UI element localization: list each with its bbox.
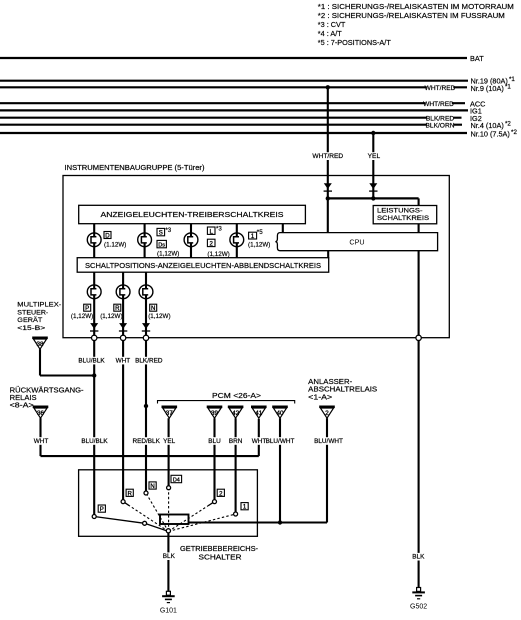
svg-text:37: 37 — [166, 410, 174, 417]
wire BAT bus — [0, 57, 467, 59]
svg-text:WHT/RED: WHT/RED — [423, 101, 454, 108]
lamp D indicator — [87, 233, 101, 247]
svg-text:*2 : SICHERUNGS-/RELAISKASTEN: *2 : SICHERUNGS-/RELAISKASTEN IM FUSSRAU… — [318, 11, 505, 20]
wire driver to lamp D indicator — [93, 224, 95, 233]
box indicator driver circuit (ANZEIGELEUCHTEN-TREIBERSCHALTKREIS) — [79, 205, 306, 223]
svg-text:N: N — [151, 305, 155, 312]
wire color label BLU — [208, 437, 221, 445]
svg-text:<8-A>: <8-A> — [10, 402, 34, 409]
harness arrow lamp R indicator — [119, 323, 127, 331]
svg-text:*5 : 7-POSITIONS-A/T: *5 : 7-POSITIONS-A/T — [318, 38, 392, 47]
svg-text:41: 41 — [255, 410, 263, 417]
wire lamp 1 indicator to dimming circuit — [236, 247, 238, 258]
wire color label BLU/BLK — [78, 357, 105, 365]
contact label D4 — [171, 475, 182, 483]
switch contact 1 — [234, 512, 238, 516]
harness arrow YEL into cluster — [369, 183, 377, 191]
wire color label WHT — [116, 357, 131, 365]
wire color label WHT/RED — [425, 84, 456, 92]
wire driver circuit to CPU — [282, 224, 284, 232]
svg-text:CPU: CPU — [349, 238, 364, 247]
wire color label BLU/WHT — [266, 437, 295, 445]
svg-text:GERÄT: GERÄT — [17, 316, 42, 324]
svg-text:R: R — [115, 305, 120, 312]
wire multiplex to BLU/BLK — [40, 374, 94, 376]
svg-text:*5: *5 — [257, 229, 263, 236]
wire IG2 bus BLK/RED — [0, 117, 462, 119]
wire fuse Nr.10 bus — [0, 132, 467, 134]
wire fuse Nr.19 bus — [0, 80, 468, 82]
contact label R — [126, 489, 133, 497]
wire lamp P indicator to connector — [93, 299, 95, 336]
wire WHT R-lamp to switch — [122, 340, 124, 502]
svg-text:42: 42 — [232, 410, 240, 417]
wire dimming circuit to lamp N indicator — [145, 272, 147, 285]
svg-text:39: 39 — [211, 410, 219, 417]
wire CPU ground drop — [418, 251, 420, 336]
svg-text:RÜCKWÄRTSGANG-: RÜCKWÄRTSGANG- — [10, 386, 85, 394]
connector 38 multiplex unit — [32, 338, 48, 349]
wire YEL PCM 37 to switch D — [168, 418, 170, 488]
dashed wiper line to R — [123, 502, 168, 532]
wire IG1 bus — [0, 109, 468, 111]
svg-text:RED/BLK: RED/BLK — [133, 438, 161, 445]
connector pin 40 PCM — [272, 407, 288, 418]
wire BLU PCM 39 to switch 2 — [213, 418, 215, 501]
connector 2 starter cutoff relay — [319, 407, 335, 418]
connector pin 39 PCM — [207, 407, 223, 418]
label box 2 — [207, 239, 215, 247]
wire lamp S/Ds indicator to dimming circuit — [144, 247, 146, 258]
junction node BLU/BLK-multiplex — [92, 373, 96, 377]
switch pivot common — [166, 529, 170, 533]
svg-text:RELAIS: RELAIS — [10, 395, 37, 402]
wire BLU/WHT to switch common — [189, 521, 328, 523]
svg-text:(1,12W): (1,12W) — [100, 313, 122, 320]
contact label 2 — [217, 489, 224, 497]
wire color label BLK/ORN — [426, 122, 455, 130]
wire color label BLK — [412, 553, 425, 561]
svg-text:BLK/ORN: BLK/ORN — [426, 122, 455, 129]
svg-text:BAT: BAT — [470, 54, 484, 63]
connector pin on cluster, lamp R indicator — [120, 335, 125, 340]
connector pin on cluster, lamp P indicator — [92, 335, 97, 340]
lamp L/2 indicator — [184, 233, 198, 247]
label box Ds — [157, 240, 166, 248]
svg-text:38: 38 — [36, 341, 44, 348]
svg-text:BLU/WHT: BLU/WHT — [314, 438, 343, 445]
svg-text:WHT: WHT — [34, 438, 49, 445]
wire BLU/BLK P-lamp to switch — [93, 340, 95, 517]
wire internal feed bar — [328, 197, 419, 199]
wire dimming circuit to lamp R indicator — [122, 272, 124, 285]
svg-text:MULTIPLEX-: MULTIPLEX- — [17, 302, 61, 309]
svg-text:R: R — [127, 490, 132, 497]
connector 36 reverse relay — [33, 407, 49, 418]
wire BLK CPU to ground — [418, 340, 420, 588]
harness arrow lamp P indicator — [90, 323, 98, 331]
svg-text:LEISTUNGS-: LEISTUNGS- — [377, 207, 423, 214]
svg-text:ABSCHALTRELAIS: ABSCHALTRELAIS — [308, 387, 377, 394]
wire WHT riser to PCM 41 — [258, 419, 260, 456]
junction node BLK/RED — [144, 404, 148, 408]
wiper roller contact — [143, 521, 147, 525]
switch wiper rectangle — [160, 515, 189, 525]
connector pin on cluster, lamp N indicator — [143, 335, 148, 340]
contact label N — [149, 482, 156, 490]
wire from connector 38 — [39, 349, 41, 375]
connector pin 42 PCM — [228, 407, 244, 418]
svg-text:Ds: Ds — [158, 243, 165, 249]
svg-text:(1,12W): (1,12W) — [248, 242, 270, 249]
svg-text:STEUER-: STEUER- — [17, 309, 48, 316]
lamp S/Ds indicator — [138, 233, 152, 247]
wire WHT relay to PCM 41 — [41, 455, 259, 457]
svg-text:<15-B>: <15-B> — [17, 325, 45, 332]
wire color label WHT — [252, 437, 267, 445]
svg-text:D: D — [105, 232, 110, 239]
svg-text:*3: *3 — [165, 227, 171, 234]
label box D — [104, 232, 111, 240]
wire power circuit to CPU — [418, 224, 420, 233]
wire color label BRN — [229, 437, 243, 445]
wire lamp N indicator to connector — [145, 299, 147, 336]
label box 1 — [249, 232, 257, 240]
svg-text:GETRIEBEBEREICHS-: GETRIEBEBEREICHS- — [180, 546, 259, 553]
wire color label YEL — [163, 437, 176, 445]
box transmission range switch (GETRIEBEBEREICHS-SCHALTER) — [79, 470, 258, 537]
svg-text:D4: D4 — [173, 478, 180, 484]
wire bar to power circuit — [418, 198, 420, 205]
wire WHT from connector 36 — [39, 418, 41, 456]
svg-text:ANLASSER-: ANLASSER- — [308, 379, 353, 386]
svg-text:2: 2 — [210, 241, 214, 248]
svg-text:*4 : A/T: *4 : A/T — [318, 29, 342, 38]
wiper stub at R — [123, 502, 129, 506]
wire color label BLK/RED — [135, 357, 163, 365]
wire fuse Nr.4 bus BLK/ORN — [0, 124, 462, 126]
switch contact P — [92, 515, 96, 519]
switch contact D — [167, 486, 171, 490]
label box P — [84, 304, 91, 312]
svg-text:BRN: BRN — [229, 438, 243, 445]
lamp R indicator — [116, 285, 130, 299]
bracket PCM connector group — [158, 401, 295, 404]
lamp 1 indicator — [230, 233, 244, 247]
wire color label WHT/RED — [423, 100, 454, 108]
wire BLU/WHT PCM 40 drop — [279, 418, 281, 522]
wire color label WHT/RED — [312, 152, 343, 160]
svg-text:ANZEIGELEUCHTEN-TREIBERSCHALTK: ANZEIGELEUCHTEN-TREIBERSCHALTKREIS — [101, 210, 284, 219]
svg-text:*3 : CVT: *3 : CVT — [318, 20, 346, 29]
svg-text:BLU/WHT: BLU/WHT — [266, 438, 295, 445]
junction node YEL-bar — [371, 196, 375, 200]
lamp N indicator — [139, 285, 153, 299]
box instrument cluster — [63, 176, 449, 338]
label box L — [207, 227, 215, 235]
wire color label RED/BLK — [133, 437, 161, 445]
ground G101 — [160, 591, 177, 614]
switch contact N — [144, 491, 148, 495]
svg-text:WHT/RED: WHT/RED — [425, 85, 456, 92]
svg-text:WHT: WHT — [252, 438, 267, 445]
wire color label BLK/RED — [426, 115, 454, 123]
wire dimming circuit to lamp P indicator — [93, 272, 95, 285]
dashed wiper line to N — [146, 493, 168, 531]
svg-text:WHT/RED: WHT/RED — [312, 153, 343, 160]
svg-text:SCHALTKREIS: SCHALTKREIS — [377, 215, 430, 222]
wire color label BLU/BLK — [81, 437, 108, 445]
svg-text:L: L — [210, 228, 214, 235]
label box R — [114, 304, 121, 312]
box shift position lamp dimming circuit (SCHALTPOSITIONS-ANZEIGELEUCHTEN-ABBLENDSCHALTKREIS) — [77, 258, 329, 273]
svg-text:YEL: YEL — [163, 438, 176, 445]
wire color label WHT — [34, 437, 49, 445]
svg-text:*3: *3 — [216, 225, 222, 232]
wire lamp D indicator to dimming circuit — [93, 247, 95, 258]
svg-text:(1.12W): (1.12W) — [104, 242, 126, 249]
svg-text:G502: G502 — [410, 604, 427, 611]
junction node BLU/WHT — [278, 520, 282, 524]
box power circuit (LEISTUNGS-SCHALTKREIS) — [373, 206, 437, 224]
svg-text:P: P — [100, 506, 104, 513]
wire fuse Nr.9 bus WHT/RED — [0, 86, 467, 88]
switch contact 2 — [213, 500, 217, 504]
junction on Nr.10 bus — [371, 131, 375, 135]
svg-text:BLK: BLK — [163, 553, 176, 560]
svg-text:YEL: YEL — [368, 153, 381, 160]
wire lamp L/2 indicator to dimming circuit — [190, 247, 192, 258]
svg-text:BLK: BLK — [412, 554, 425, 561]
wire ACC bus WHT/RED — [0, 102, 465, 104]
wiper contact line P — [94, 517, 168, 532]
harness arrow lamp N indicator — [142, 323, 150, 331]
junction on Nr.9 bus — [326, 85, 330, 89]
svg-text:BLU/BLK: BLU/BLK — [81, 438, 108, 445]
svg-text:PCM <26-A>: PCM <26-A> — [212, 391, 261, 400]
contact label P — [98, 505, 105, 513]
wire lamp R indicator to connector — [122, 299, 124, 336]
svg-text:G101: G101 — [160, 607, 177, 614]
wire color label BLK — [163, 552, 176, 560]
svg-text:BLK/RED: BLK/RED — [135, 357, 163, 364]
switch contact R — [121, 500, 125, 504]
lamp P indicator — [87, 285, 101, 299]
connector pin 37 PCM — [162, 407, 178, 418]
connector pin 41 PCM — [251, 407, 267, 418]
wire BLK switch to ground — [167, 533, 169, 592]
svg-text:BLU: BLU — [208, 438, 221, 445]
svg-text:2: 2 — [325, 410, 329, 417]
svg-text:<1-A>: <1-A> — [308, 394, 332, 401]
contact label 1 — [241, 503, 248, 511]
svg-text:P: P — [85, 305, 89, 312]
label box S — [157, 228, 165, 236]
svg-text:(1,12W): (1,12W) — [157, 251, 179, 258]
harness arrow WHT/RED into cluster — [324, 183, 332, 191]
svg-text:SCHALTPOSITIONS-ANZEIGELEUCHTE: SCHALTPOSITIONS-ANZEIGELEUCHTEN-ABBLENDS… — [85, 263, 321, 270]
ground G502 — [410, 588, 427, 611]
svg-text:INSTRUMENTENBAUGRUPPE (5-Türer: INSTRUMENTENBAUGRUPPE (5-Türer) — [65, 163, 205, 172]
wire WHT/RED feed drop — [327, 87, 329, 232]
wire BLK/RED N-lamp to switch — [145, 340, 147, 493]
svg-text:S: S — [159, 230, 163, 237]
svg-text:WHT: WHT — [116, 357, 131, 364]
wire CPU to dimming circuit — [327, 251, 329, 258]
wire BLU/WHT starter relay drop — [326, 418, 328, 522]
wire BRN PCM 42 to switch 1 — [235, 418, 237, 514]
svg-text:(1,12W): (1,12W) — [148, 313, 170, 320]
wire YEL feed drop — [372, 133, 374, 198]
svg-text:BLK/RED: BLK/RED — [426, 115, 454, 122]
label box N — [150, 304, 157, 312]
wire color label YEL — [368, 152, 381, 160]
dashed wiper line to D — [168, 488, 170, 532]
box CPU — [275, 233, 437, 251]
dashed wiper line to 2 — [168, 502, 214, 532]
svg-text:BLU/BLK: BLU/BLK — [78, 357, 105, 364]
wire driver to lamp S/Ds indicator — [144, 224, 146, 233]
dashed wiper line to 1 — [168, 514, 235, 531]
wire driver to lamp L/2 indicator — [190, 224, 192, 233]
wire color label BLU/WHT — [314, 437, 343, 445]
wiper stub at 2 — [209, 502, 215, 506]
connector pin on cluster, CPU ground — [416, 335, 421, 340]
svg-text:N: N — [150, 483, 154, 490]
wire driver to lamp 1 indicator — [236, 224, 238, 233]
svg-text:(1,12W): (1,12W) — [71, 313, 93, 320]
junction node WHT/RED-bar — [326, 196, 330, 200]
svg-text:*1 : SICHERUNGS-/RELAISKASTEN: *1 : SICHERUNGS-/RELAISKASTEN IM MOTORRA… — [318, 2, 514, 11]
svg-text:SCHALTER: SCHALTER — [199, 555, 242, 562]
svg-text:36: 36 — [37, 410, 45, 417]
svg-text:40: 40 — [276, 410, 284, 417]
